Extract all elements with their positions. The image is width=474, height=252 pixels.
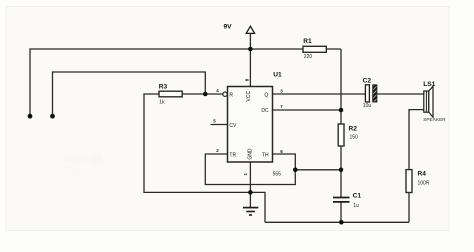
node terminal B [50,114,55,119]
svg-text:C1: C1 [353,193,362,200]
wire bottom rail [265,221,409,223]
wire speaker to R4 [409,110,424,170]
capacitor C2 10u polarized [363,78,377,110]
svg-text:220: 220 [304,54,313,60]
svg-text:C2: C2 [363,78,372,85]
svg-text:9V: 9V [224,24,233,31]
svg-text:SPEAKER: SPEAKER [423,117,446,122]
resistor R1 220 [303,38,326,60]
wire C2 to speaker [377,93,424,95]
svg-text:DC: DC [261,108,269,114]
node reset junction [203,92,208,97]
svg-text:TR: TR [229,153,236,159]
wire GND pin 1 [249,162,251,192]
svg-text:150: 150 [350,135,359,141]
speaker LS1 [423,81,446,122]
node DC junction [339,108,344,113]
svg-text:LS1: LS1 [423,81,435,88]
wire rail right drop to R2 [340,49,342,124]
wire top 9V rail with left drop to terminal [30,49,341,116]
svg-text:R4: R4 [418,171,427,178]
wire Q output pin 3 to C2 [273,93,366,95]
capacitor C1 1u [333,193,361,209]
resistor R3 1k [159,84,182,106]
node R2-C1 junction [339,168,344,173]
node 9V rail junction [248,47,253,52]
svg-text:TH: TH [262,153,269,159]
wire second rail from terminal 2 to reset node [53,72,206,116]
wire 9V arrow stem [249,33,251,49]
resistor R2 150 [338,124,358,146]
svg-text:Q: Q [264,92,268,98]
wire R4 bottom [408,193,410,223]
wire R3 right to reset pin [182,93,223,95]
ground [243,192,258,215]
wire TR TH feedback loop [205,154,295,185]
svg-text:NOV 11: NOV 11 [64,153,103,165]
svg-text:10u: 10u [363,103,372,109]
wire TH node to R2 bottom [295,169,341,171]
wire R3 left down and along to ground net [144,94,265,222]
svg-text:U1: U1 [273,72,282,79]
svg-text:R1: R1 [303,38,312,45]
svg-text:rev: rev [70,167,81,176]
node TH junction [293,168,298,173]
resistor R4 100R [406,170,430,193]
IC U1 555 timer [213,72,283,178]
svg-text:R3: R3 [159,84,168,91]
svg-text:1k: 1k [159,99,165,105]
svg-text:1u: 1u [353,203,359,209]
wire VCC pin 8 [249,49,251,87]
svg-text:CV: CV [229,123,237,129]
wire C1 bottom to rail [340,202,342,222]
node terminal A [28,114,33,119]
svg-text:100R: 100R [418,181,430,187]
svg-text:GND: GND [247,148,253,160]
node bottom rail junction [339,220,344,225]
svg-text:555: 555 [273,171,282,177]
wire DC pin 7 to R2 net [273,109,342,111]
power 9V arrow [224,24,255,34]
wire R2 bottom to C1 top [340,146,342,197]
svg-text:VCC: VCC [246,91,252,102]
svg-text:R2: R2 [349,126,358,133]
node ground junction [248,190,253,195]
wire CV stub pin 5 [211,124,228,126]
svg-text:R: R [229,92,233,98]
